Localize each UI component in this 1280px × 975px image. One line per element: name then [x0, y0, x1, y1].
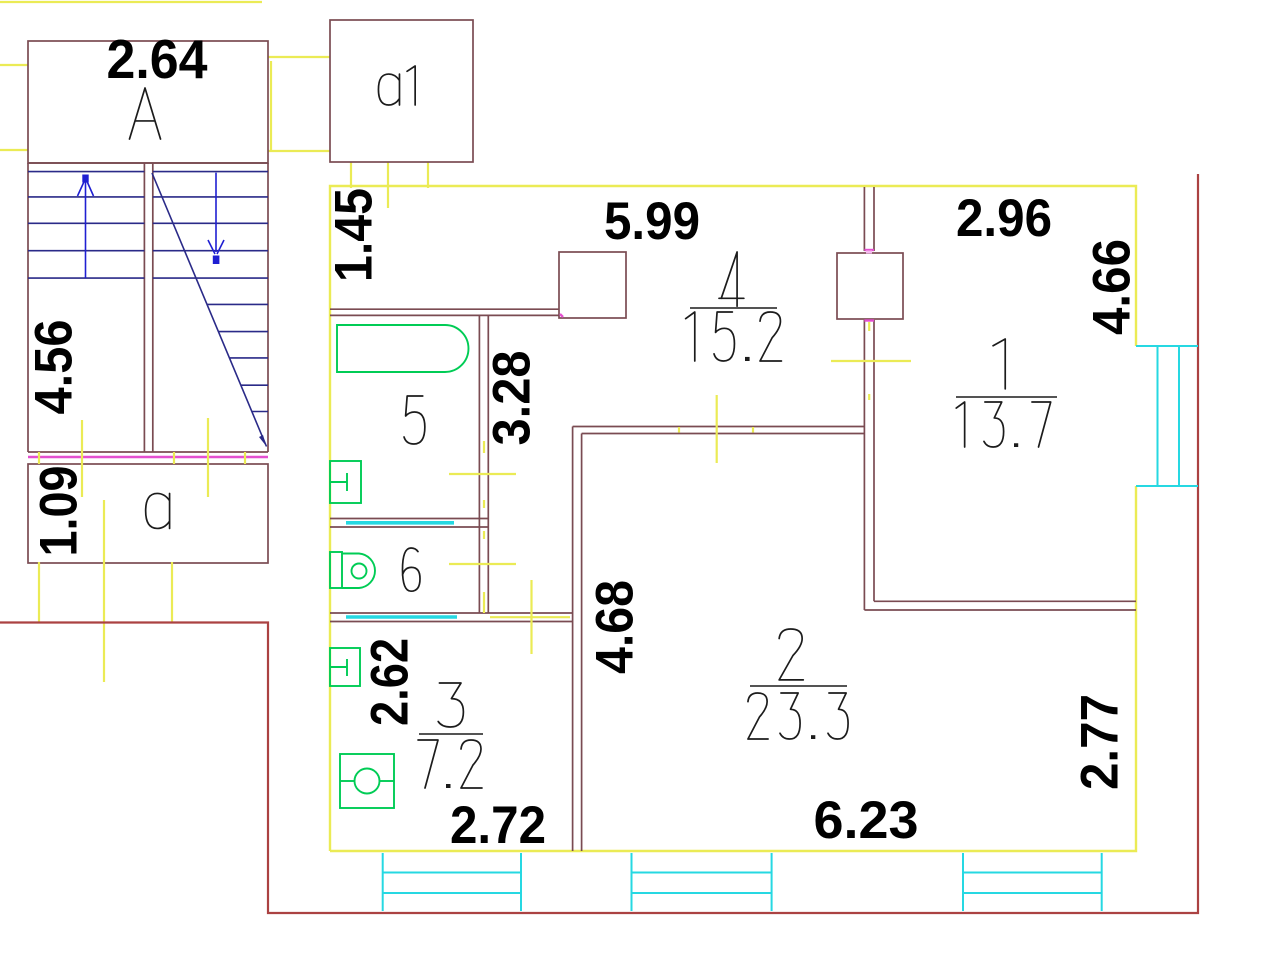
dim tick in bath wall gap d [483, 592, 485, 613]
dim tick x82 [81, 420, 83, 497]
dim tick room1 wall gap b [868, 394, 870, 400]
wall room2 top [573, 426, 865, 428]
dim tick x245 [244, 452, 246, 464]
wall hall/bath top [330, 308, 559, 310]
dim tick in bath wall gap b [483, 500, 485, 508]
dimension tick below a1 middle [387, 162, 389, 208]
stair down arrow [215, 173, 217, 252]
label 3 kitchen [438, 683, 463, 727]
dimension tick block A to a1 lower [268, 150, 330, 152]
magenta line below staircase [28, 456, 268, 458]
label area 13.7 [956, 402, 1050, 447]
svg-text:3.28: 3.28 [483, 351, 542, 446]
dimension tick below a1 right [427, 162, 429, 188]
vent box left [559, 252, 626, 318]
dimension tick left of block A lower [0, 149, 28, 151]
dim tick crossing bath wall upper [449, 473, 516, 475]
svg-text:2.64: 2.64 [107, 28, 208, 90]
wall room2 left vertical [572, 427, 574, 852]
dim tick crossing bath wall lower [449, 563, 516, 565]
fraction line room 2 [750, 685, 847, 687]
dim tick in bath wall gap c [483, 531, 485, 539]
staircase outer walls [27, 163, 29, 452]
label 6 toilet [403, 548, 421, 591]
window room2 bottom left [631, 853, 633, 911]
stair treads right flight lower [207, 303, 268, 305]
dim tick x39 below a [38, 562, 40, 622]
svg-text:2.77: 2.77 [1071, 694, 1130, 790]
magenta crossing vent box top [864, 249, 874, 251]
dimension tick below a1 left [350, 162, 352, 188]
toilet [330, 552, 342, 588]
svg-text:1.09: 1.09 [30, 466, 89, 557]
wall toilet-kitchen [330, 612, 573, 614]
label area 23.3 [748, 693, 848, 739]
dim tick y361 room1 wall [831, 360, 911, 362]
dim tick in bath wall gap a [483, 441, 485, 453]
stair diagonal break line [152, 173, 267, 447]
dim tick x104 below a [103, 500, 105, 682]
dim tick x208 [207, 418, 209, 497]
stove [340, 754, 394, 808]
dim tick x39 stair bottom [38, 452, 40, 464]
stair treads right flight upper [153, 171, 268, 173]
window kitchen bottom [382, 853, 384, 911]
svg-text:5.99: 5.99 [604, 192, 700, 251]
wall room1 bottom [874, 600, 1136, 602]
dim bit room2 wall gap b [752, 427, 754, 433]
door threshold toilet [346, 615, 457, 619]
fraction line room 4 [690, 307, 777, 309]
wall bath-toilet divider [330, 518, 488, 520]
dim bit room2 wall gap a [678, 427, 680, 433]
label 4 room [719, 252, 744, 306]
svg-text:4.56: 4.56 [25, 320, 84, 415]
washbasin bath [330, 461, 361, 503]
annex a1 box [330, 20, 473, 162]
label 2 room [779, 629, 803, 680]
dim tick kitchen wall gap [490, 616, 570, 618]
magenta crossing vent box bottom [864, 319, 874, 321]
dim tick x531 [530, 580, 532, 654]
dim tick x174 [173, 452, 175, 464]
svg-text:4.68: 4.68 [586, 580, 645, 674]
magenta at vent box left [560, 314, 563, 317]
label area 7.2 [418, 740, 482, 788]
label a1 annex [378, 66, 415, 105]
svg-text:4.66: 4.66 [1083, 239, 1142, 335]
window room2 bottom right [962, 853, 964, 911]
dim tick x172 below a [171, 562, 173, 622]
stair up arrow [85, 182, 87, 278]
fraction line room 3 [419, 733, 483, 735]
label A staircase [130, 88, 161, 139]
bathtub [337, 325, 468, 372]
svg-text:2.72: 2.72 [450, 796, 546, 855]
svg-text:1.45: 1.45 [325, 188, 384, 282]
stair treads left flight [28, 171, 144, 173]
vestibule a box [28, 464, 268, 563]
svg-text:6.23: 6.23 [814, 791, 919, 850]
label a vestibule [146, 493, 170, 528]
dimension tick left of block A upper [0, 64, 28, 66]
svg-text:2.96: 2.96 [956, 189, 1052, 248]
window room1 right [1136, 345, 1198, 347]
label area 15.2 [686, 312, 782, 361]
staircase block A outline [28, 41, 268, 163]
dimension tick block A to a1 upper [268, 56, 330, 58]
dim tick x716 room2 top [716, 395, 718, 463]
vent box right [837, 253, 903, 319]
door threshold bath [346, 521, 454, 525]
svg-text:2.62: 2.62 [361, 638, 420, 726]
red site boundary [0, 174, 1198, 913]
label 1 room [993, 339, 1005, 389]
fraction line room 1 [956, 396, 1057, 398]
wall bath right vertical [478, 315, 480, 613]
staircase center divider [143, 163, 145, 452]
label 5 bathroom [404, 396, 425, 444]
dim tick room1 wall gap a [868, 322, 870, 331]
wall room1 left vertical [863, 187, 865, 251]
apartment boundary yellow [330, 186, 1136, 851]
dimension tick vertical right of block A [270, 61, 272, 152]
dimension line top edge [0, 1, 262, 3]
sink kitchen [330, 648, 360, 686]
